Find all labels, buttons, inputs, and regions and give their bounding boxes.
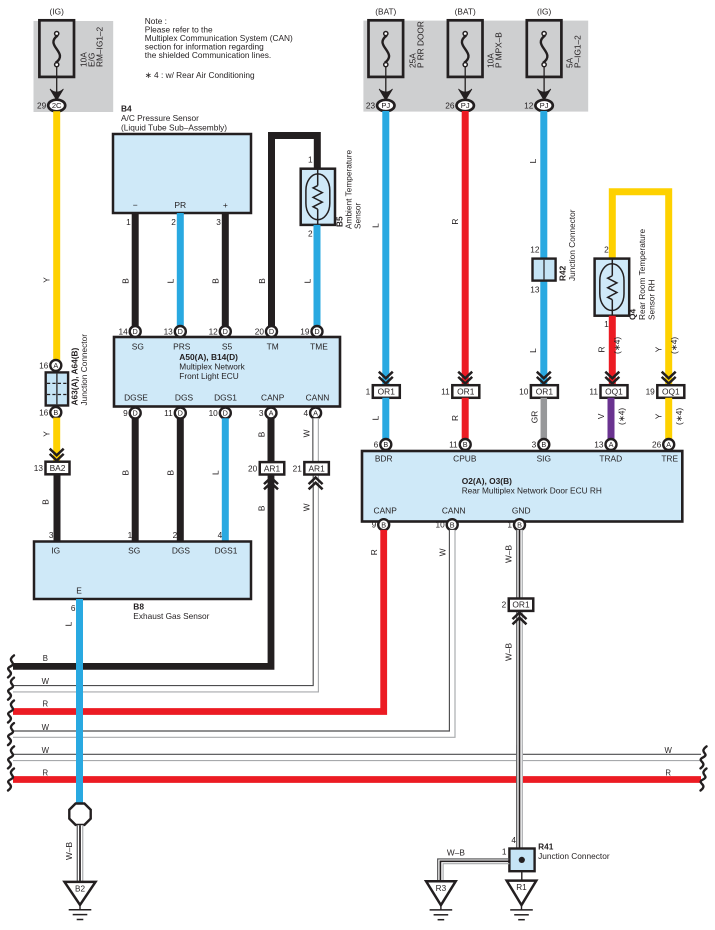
svg-text:26: 26	[652, 440, 662, 450]
wire R from PJ26 to OR1	[450, 111, 472, 385]
svg-text:B: B	[517, 520, 522, 529]
svg-text:2: 2	[308, 229, 313, 239]
svg-text:B: B	[211, 278, 221, 284]
svg-text:S5: S5	[222, 341, 233, 351]
svg-text:6: 6	[71, 603, 76, 613]
connector PJ pin 23	[366, 100, 395, 111]
connector OR1 pin 2	[502, 599, 534, 625]
svg-text:12: 12	[530, 245, 540, 255]
junction connector A63/A64 body	[46, 334, 89, 406]
bus wire W third full width	[8, 746, 707, 769]
svg-text:B: B	[166, 469, 176, 475]
svg-text:2: 2	[604, 245, 609, 255]
svg-text:R3: R3	[436, 884, 447, 893]
bus wire W second	[8, 723, 50, 745]
B4 pin 3 wire B to A50 S5	[211, 213, 226, 327]
sensor B5 Ambient Temperature Sensor (thermistor)	[301, 149, 363, 229]
svg-text:B4: B4	[121, 103, 132, 113]
A50 pin 10D	[209, 408, 231, 419]
connector OQ1 pin 19	[646, 385, 685, 398]
O2 pin 9B	[372, 519, 390, 530]
connector PJ pin 26	[445, 100, 474, 111]
svg-text:AR1: AR1	[308, 463, 325, 473]
svg-text:(∗4): (∗4)	[669, 337, 679, 354]
wire L from A50 DGS1 to B8 DGS1	[211, 418, 226, 541]
B4 pin 1 wire B to A50 SG	[121, 213, 136, 327]
svg-text:CPUB: CPUB	[453, 454, 477, 464]
svg-text:D: D	[133, 409, 138, 418]
sensor B4 A/C Pressure Sensor	[113, 103, 251, 213]
junction connector R42	[530, 209, 577, 294]
svg-text:W–B: W–B	[503, 545, 513, 563]
svg-text:16: 16	[39, 360, 49, 370]
svg-text:CANN: CANN	[442, 505, 466, 515]
wire R from O2 CANP to R bus	[13, 530, 384, 712]
svg-text:6: 6	[374, 440, 379, 450]
svg-text:W: W	[42, 723, 50, 732]
fuse block background right	[363, 21, 588, 112]
wire B loop from A50 TM up over to B5 pin 1	[257, 136, 317, 327]
wire W from O2 CANN to W bus	[13, 530, 455, 737]
svg-text:2C: 2C	[52, 101, 62, 110]
O2 pin 3B	[532, 439, 550, 450]
svg-text:D: D	[223, 327, 228, 336]
svg-text:W–B: W–B	[447, 847, 465, 857]
A50 pin 3A	[259, 408, 277, 419]
connector AR1 pin 20	[248, 462, 284, 489]
svg-text:12: 12	[209, 327, 219, 337]
svg-text:+: +	[223, 200, 228, 210]
svg-text:1: 1	[604, 319, 609, 329]
wire L from PJ12 to junction R42	[528, 111, 551, 385]
svg-text:RM–IG1–2: RM–IG1–2	[95, 26, 105, 67]
svg-text:20: 20	[248, 463, 258, 473]
svg-text:TRAD: TRAD	[599, 454, 622, 464]
svg-text:B: B	[43, 654, 48, 663]
svg-text:L: L	[63, 621, 73, 626]
fuse block background left	[34, 21, 114, 112]
svg-text:1: 1	[366, 387, 371, 397]
svg-text:3: 3	[49, 530, 54, 540]
svg-text:TME: TME	[310, 341, 328, 351]
svg-text:3: 3	[216, 217, 221, 227]
svg-text:P–IG1–2: P–IG1–2	[573, 35, 583, 68]
bus wire R first	[8, 700, 48, 723]
connector OR1 pin 1	[366, 385, 400, 398]
ECU A50(A) B14(D) Multiplex Network Front Light ECU	[114, 337, 340, 407]
svg-text:13: 13	[594, 440, 604, 450]
svg-text:4: 4	[511, 835, 516, 845]
svg-text:P RR DOOR: P RR DOOR	[416, 21, 426, 68]
svg-text:Junction Connector: Junction Connector	[79, 334, 89, 406]
svg-text:2: 2	[171, 217, 176, 227]
wire B from A50 CANP through AR1 to B bus	[13, 418, 271, 666]
svg-text:(∗4): (∗4)	[617, 408, 627, 425]
svg-text:OQ1: OQ1	[605, 387, 623, 397]
svg-text:DGSE: DGSE	[124, 392, 148, 402]
wire W-B from octagon to ground B2	[64, 825, 83, 882]
svg-text:Front Light ECU: Front Light ECU	[179, 371, 238, 381]
svg-text:26: 26	[445, 101, 455, 111]
svg-text:B: B	[383, 440, 388, 449]
wire Y from A63 to connector BA2	[42, 418, 64, 462]
svg-text:R: R	[597, 347, 607, 353]
svg-text:1: 1	[128, 530, 133, 540]
svg-text:B: B	[53, 408, 58, 417]
svg-text:14: 14	[118, 327, 128, 337]
svg-text:20: 20	[255, 327, 265, 337]
svg-text:A: A	[53, 361, 58, 370]
svg-text:(BAT): (BAT)	[455, 6, 476, 16]
svg-text:OR1: OR1	[457, 387, 475, 397]
wire Y from OQ1 to O2 TRE	[654, 398, 684, 440]
svg-text:4: 4	[303, 408, 308, 418]
bus wire R second full width	[8, 769, 707, 791]
svg-text:IG: IG	[51, 545, 60, 555]
ECU O2(A) O3(B) Rear Multiplex Network Door ECU RH	[362, 451, 682, 522]
fuse 25A P RR DOOR (BAT)	[369, 6, 426, 100]
svg-text:1: 1	[308, 155, 313, 165]
svg-text:SIG: SIG	[537, 454, 551, 464]
svg-text:13: 13	[164, 327, 174, 337]
wire R from OR1 to O2 CPUB	[450, 398, 465, 440]
connector BA2 pin 13	[34, 462, 70, 475]
wire W-B from O2 GND to OR1 2	[503, 530, 522, 598]
svg-text:R: R	[450, 415, 460, 421]
shield ground octagon	[69, 804, 90, 825]
svg-text:W: W	[302, 429, 312, 437]
svg-text:(Liquid Tube Sub–Assembly): (Liquid Tube Sub–Assembly)	[121, 122, 227, 132]
ground R3	[426, 881, 456, 919]
svg-text:Y: Y	[42, 431, 52, 437]
svg-text:Sensor RH: Sensor RH	[647, 279, 657, 320]
O2 pin 11B	[449, 439, 471, 450]
wire R from Q4 pin 1 to OQ1 11	[597, 316, 622, 386]
svg-text:L: L	[371, 223, 381, 228]
connector PJ pin 12	[524, 100, 553, 111]
svg-text:OR1: OR1	[512, 600, 530, 610]
svg-text:∗ 4 : w/ Rear Air Conditioning: ∗ 4 : w/ Rear Air Conditioning	[145, 70, 255, 80]
A50 pin 20D	[255, 326, 277, 337]
connector OQ1 pin 11	[589, 385, 627, 398]
O2 pin 13A	[594, 439, 616, 450]
svg-text:D: D	[314, 327, 319, 336]
svg-text:Y: Y	[654, 413, 664, 419]
A50 pin 19D	[300, 326, 322, 337]
svg-text:2: 2	[173, 530, 178, 540]
svg-text:B: B	[121, 469, 131, 475]
svg-text:W: W	[42, 746, 50, 755]
svg-text:(∗4): (∗4)	[612, 337, 622, 354]
wire W from A50 CANN through AR1 to W bus	[13, 418, 318, 692]
svg-text:A: A	[313, 409, 318, 418]
connector 2C pin 29	[37, 100, 65, 112]
svg-text:W: W	[42, 677, 50, 686]
svg-text:Sensor: Sensor	[352, 202, 362, 229]
svg-text:CANN: CANN	[306, 392, 330, 402]
A50 pin 14D	[118, 326, 140, 337]
connector OR1 pin 10	[519, 385, 558, 398]
svg-text:PJ: PJ	[461, 101, 470, 110]
fuse 10A P MPX-B (BAT)	[448, 6, 504, 100]
bus wire B	[8, 654, 48, 677]
wire GR from OR1 to O2 SIG	[530, 398, 544, 440]
svg-text:D: D	[133, 327, 138, 336]
wire W-B crossing buses (redraw over)	[517, 745, 523, 849]
svg-text:9: 9	[123, 408, 128, 418]
svg-text:W: W	[438, 548, 448, 556]
svg-text:12: 12	[524, 101, 534, 111]
O2 pin 6B	[374, 439, 392, 450]
svg-text:1: 1	[507, 520, 512, 530]
svg-text:3: 3	[259, 408, 264, 418]
svg-text:10: 10	[435, 520, 445, 530]
wire W-B from OR1 2 down to junction R41	[503, 611, 522, 849]
svg-text:3: 3	[532, 440, 537, 450]
svg-text:10: 10	[519, 387, 529, 397]
wire B from A50 DGSE to B8 SG	[121, 418, 136, 541]
svg-text:(IG): (IG)	[537, 6, 552, 16]
svg-text:11: 11	[589, 387, 598, 397]
svg-text:16: 16	[39, 407, 49, 417]
svg-text:GND: GND	[512, 505, 531, 515]
wire L crossing buses (redraw over)	[76, 599, 83, 803]
svg-text:DGS1: DGS1	[215, 545, 238, 555]
svg-text:B: B	[257, 278, 267, 284]
wire Y from 2C to junction A63	[42, 111, 57, 360]
svg-text:D: D	[269, 327, 274, 336]
svg-text:PR: PR	[174, 200, 186, 210]
sensor Q4 Rear Room Temperature Sensor RH (thermistor)	[595, 228, 657, 320]
junction connector A63(A) A64(B) pin 16A	[39, 360, 61, 371]
A50 pin 4A	[303, 408, 321, 419]
svg-text:SG: SG	[132, 341, 144, 351]
svg-text:W: W	[302, 503, 312, 511]
svg-text:21: 21	[293, 463, 303, 473]
svg-text:B8: B8	[133, 602, 144, 612]
svg-text:B2: B2	[75, 884, 85, 893]
svg-text:Y: Y	[654, 346, 664, 352]
svg-text:11: 11	[449, 440, 458, 450]
svg-text:OQ1: OQ1	[662, 387, 680, 397]
svg-text:P MPX–B: P MPX–B	[494, 32, 504, 68]
svg-text:the shielded Communication lin: the shielded Communication lines.	[145, 50, 271, 60]
note text	[145, 16, 293, 80]
svg-text:10: 10	[209, 408, 219, 418]
svg-text:W–B: W–B	[503, 643, 513, 661]
svg-text:9: 9	[372, 520, 377, 530]
svg-text:BA2: BA2	[50, 463, 66, 473]
svg-text:Junction Connector: Junction Connector	[538, 851, 610, 861]
fuse 5A P-IG1-2 (IG)	[527, 6, 583, 100]
svg-text:Rear Room Temperature: Rear Room Temperature	[637, 228, 647, 320]
connector OR1 pin 11	[441, 385, 479, 398]
ground R1	[507, 881, 537, 920]
svg-text:W: W	[665, 746, 673, 755]
wire Y loop to Q4 pin 2 from OQ1 19	[604, 192, 679, 386]
svg-text:(∗4): (∗4)	[674, 408, 684, 425]
svg-text:19: 19	[646, 387, 656, 397]
svg-text:PJ: PJ	[540, 101, 549, 110]
svg-text:L: L	[528, 348, 538, 353]
svg-text:B: B	[463, 440, 468, 449]
svg-text:Exhaust Gas Sensor: Exhaust Gas Sensor	[133, 611, 209, 621]
svg-text:L: L	[302, 278, 312, 283]
svg-text:2: 2	[502, 600, 507, 610]
svg-text:B: B	[256, 431, 266, 437]
svg-text:Junction Connector: Junction Connector	[567, 209, 577, 281]
svg-text:13: 13	[34, 463, 44, 473]
A50 pin 11D	[164, 408, 186, 419]
svg-text:B: B	[121, 278, 131, 284]
ground B2	[65, 882, 96, 920]
svg-text:(BAT): (BAT)	[375, 6, 396, 16]
svg-text:R41: R41	[538, 841, 554, 851]
svg-text:O2(A), O3(B): O2(A), O3(B)	[462, 476, 512, 486]
svg-text:4: 4	[218, 530, 223, 540]
svg-text:D: D	[178, 327, 183, 336]
svg-text:OR1: OR1	[378, 387, 396, 397]
svg-text:11: 11	[441, 387, 450, 397]
svg-text:Rear Multiplex Network Door EC: Rear Multiplex Network Door ECU RH	[462, 486, 602, 496]
O2 pin 1B	[507, 519, 525, 530]
wire from R41 to ground R1	[521, 871, 523, 880]
svg-text:D: D	[178, 409, 183, 418]
svg-text:TRE: TRE	[661, 454, 678, 464]
svg-text:DGS: DGS	[175, 392, 194, 402]
svg-text:B: B	[256, 505, 266, 511]
svg-text:R: R	[665, 769, 671, 778]
A50 pin 12D	[209, 326, 231, 337]
svg-text:R: R	[42, 700, 48, 709]
svg-text:DGS1: DGS1	[214, 392, 237, 402]
svg-text:PJ: PJ	[381, 101, 390, 110]
svg-text:R42: R42	[558, 265, 568, 281]
svg-text:A: A	[666, 440, 671, 449]
svg-text:19: 19	[300, 327, 310, 337]
svg-text:PRS: PRS	[173, 341, 191, 351]
svg-text:L: L	[166, 278, 176, 283]
wire L from OR1 to O2 BDR	[371, 398, 386, 440]
B4 pin 2 wire L to A50 PRS	[166, 213, 181, 327]
svg-text:11: 11	[164, 408, 173, 418]
junction connector R41	[502, 841, 610, 871]
svg-text:B: B	[541, 440, 546, 449]
svg-text:R: R	[369, 549, 379, 555]
svg-text:23: 23	[366, 101, 376, 111]
svg-text:Y: Y	[42, 277, 52, 283]
connector AR1 pin 21	[293, 462, 329, 489]
svg-text:CANP: CANP	[261, 392, 285, 402]
svg-text:B: B	[381, 520, 386, 529]
wire L from PJ23 to OR1	[371, 111, 393, 385]
svg-text:Multiplex Network: Multiplex Network	[179, 361, 245, 371]
svg-text:1: 1	[126, 217, 131, 227]
svg-text:Q4: Q4	[628, 309, 638, 320]
A50 pin 13D	[164, 326, 186, 337]
svg-text:(IG): (IG)	[50, 6, 65, 16]
wire V from OQ1 to O2 TRAD	[596, 398, 627, 440]
svg-text:29: 29	[37, 101, 47, 111]
svg-text:L: L	[211, 470, 221, 475]
svg-text:E: E	[76, 585, 82, 595]
svg-text:1: 1	[502, 846, 507, 856]
svg-text:W–B: W–B	[64, 842, 74, 860]
svg-text:CANP: CANP	[374, 505, 398, 515]
fuse 10A E/G RM-IG1-2 (IG)	[39, 6, 104, 100]
svg-text:R: R	[450, 219, 460, 225]
svg-text:GR: GR	[530, 411, 540, 423]
O2 pin 26A	[652, 439, 674, 450]
svg-text:BDR: BDR	[375, 454, 393, 464]
svg-text:R1: R1	[516, 883, 527, 892]
wire B from A50 DGS to B8 DGS	[166, 418, 181, 541]
svg-text:TM: TM	[267, 341, 279, 351]
O2 pin 10B	[435, 519, 457, 530]
svg-text:A: A	[609, 440, 614, 449]
svg-text:A50(A), B14(D): A50(A), B14(D)	[179, 352, 238, 362]
svg-text:L: L	[528, 158, 538, 163]
wire L from B8 pin 6 (E) down to shield ground octagon	[63, 599, 79, 803]
svg-text:V: V	[596, 413, 606, 419]
B5 pin 2 wire L to A50 TME	[302, 225, 317, 327]
svg-text:A63(A), A64(B): A63(A), A64(B)	[70, 347, 80, 405]
bus wire W first	[8, 677, 50, 700]
svg-text:A: A	[269, 409, 274, 418]
svg-text:OR1: OR1	[536, 387, 554, 397]
wire W-B from R41 pin 1 to ground R3	[438, 847, 510, 881]
svg-text:A/C Pressure Sensor: A/C Pressure Sensor	[121, 113, 199, 123]
svg-text:13: 13	[530, 285, 540, 295]
svg-text:B: B	[450, 520, 455, 529]
svg-text:−: −	[133, 200, 138, 210]
junction connector A63/A64 pin 16B	[39, 407, 61, 418]
svg-text:AR1: AR1	[264, 463, 281, 473]
svg-text:SG: SG	[128, 545, 140, 555]
svg-text:L: L	[371, 415, 381, 420]
wire B from BA2 to B8 pin 3	[40, 474, 57, 541]
svg-text:D: D	[223, 409, 228, 418]
svg-text:DGS: DGS	[172, 545, 191, 555]
sensor B8 Exhaust Gas Sensor	[34, 530, 251, 621]
svg-text:B: B	[40, 499, 50, 505]
A50 pin 9D	[123, 408, 141, 419]
